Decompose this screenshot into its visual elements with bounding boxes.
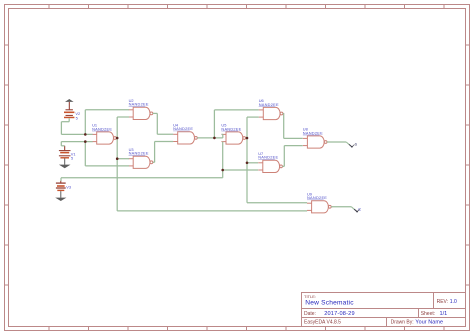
svg-text:C: C [358,208,361,212]
wire net U3out to U4 in2 [153,142,174,163]
wire net B: to U3 in2 [85,165,129,167]
nand gate U2 [129,107,155,119]
junction net Cin at U7 branch [221,169,224,172]
junction net B at U1 in2 [84,140,87,143]
wire net A: V2 bottom jog [61,118,69,134]
svg-text:Drawn By:: Drawn By: [391,320,414,326]
svg-text:5: 5 [76,116,78,121]
nand gate U6 [259,107,285,119]
value label V1 = 5V [71,151,76,160]
power flag above V2 (rotated ground, arrow up) [65,99,74,109]
wire net S1: jog up to U5 in1 [222,134,223,138]
nand gate U9 [307,201,333,213]
svg-text:5: 5 [71,156,73,161]
svg-text:NAND2EE: NAND2EE [129,151,149,156]
nand gate U4 [173,132,199,144]
junction U5out at U7 in1 [246,162,249,165]
svg-text:NAND2EE: NAND2EE [259,102,279,107]
wire net A: to U1 in1 [61,133,92,135]
wire net U1out: vertical trunk [116,117,118,211]
wire net B: to U1 in2 [61,141,92,143]
designator label U9 NAND2EE [307,191,327,200]
wire net U1out: to U2 in2 [117,116,129,118]
wire net B: drop to U3 row [84,142,86,166]
svg-text:New Schematic: New Schematic [305,300,354,307]
svg-text:1.0: 1.0 [450,299,457,305]
designator label U8 NAND2EE [303,127,323,136]
junction U1 output [116,137,119,140]
svg-text:Sheet:: Sheet: [421,311,435,317]
svg-text:NAND2EE: NAND2EE [173,126,193,131]
pin stub V3 positive [60,181,62,183]
battery V3 [56,183,66,192]
junction net A at U1 in1 [84,133,87,136]
svg-text:NAND2EE: NAND2EE [129,102,149,107]
value label V2 = 5V [75,111,80,120]
value label V3 = 5V [66,184,71,189]
wire net U5out: vertical trunk [246,117,248,203]
svg-text:V3: V3 [66,184,71,189]
svg-text:EasyEDA V4.8.5: EasyEDA V4.8.5 [304,320,341,326]
svg-text:NAND2EE: NAND2EE [307,195,327,200]
wire net U5out: to U6 in2 [247,116,259,118]
wire net U7out to U8 in2 [282,146,302,167]
net port C [351,207,361,213]
wire net Cin: to U7 in2 [223,169,258,171]
designator label U6 NAND2EE [259,98,279,107]
wire net U5out: bottom run to U9 in1 [247,202,307,204]
net port S [346,142,357,148]
svg-text:NAND2EE: NAND2EE [303,130,323,135]
svg-text:Date:: Date: [304,311,316,317]
wire net S1: to U6 in1 [214,109,258,111]
svg-text:Your Name: Your Name [415,320,443,326]
junction S1 at U4 output [213,137,216,140]
designator label U2 NAND2EE [129,98,149,107]
junction U5 output [246,137,249,140]
nand gate U1 [92,132,118,144]
svg-text:REV:: REV: [437,299,448,305]
wire net A: to U2 in1 [85,109,129,111]
ground below V1 [59,159,71,169]
wire net S: U8 out [327,141,346,143]
svg-text:NAND2EE: NAND2EE [92,126,112,131]
svg-text:2017-08-29: 2017-08-29 [324,311,355,317]
wire net U2out to U4 in1 [153,113,174,134]
wire net U1out: to U3 in1 [117,158,129,160]
svg-text:S: S [355,142,358,146]
svg-text:NAND2EE: NAND2EE [258,155,278,160]
wire net U1out: output stub [116,137,117,139]
designator label U1 NAND2EE [92,123,112,132]
nand gate U7 [258,160,284,172]
wire net S1: riser to U6 [213,110,215,138]
junction U1out at U3 in1 [116,157,119,160]
designator label U3 NAND2EE [129,147,149,156]
designator label U7 NAND2EE [258,151,278,160]
wire net Cin: long run right [61,177,223,179]
svg-text:NAND2EE: NAND2EE [221,126,241,131]
wire net U5out: to U7 in1 [247,162,258,164]
pin stub V1 positive [64,146,66,150]
nand gate U8 [303,136,329,148]
wire net B: V1 top [61,142,64,146]
nand gate U3 [129,156,155,168]
designator label U5 NAND2EE [221,123,241,132]
wire net A: riser to U2 [84,110,86,135]
wire net U1out: bottom run to U9 in2 [117,210,307,212]
wire net Cin: V3 top [60,178,62,181]
wire net U5out: output stub [246,137,248,139]
battery V1 [59,150,71,158]
svg-text:TITLE:: TITLE: [304,294,316,299]
wire net S1: U4 out run [197,137,223,139]
svg-text:1/1: 1/1 [440,311,448,317]
nand gate U5 [221,132,247,144]
ground below V3 [55,191,66,201]
wire net C: U9 out [331,206,351,208]
wire net U6out to U8 in1 [283,114,303,139]
battery V2 [64,109,74,118]
wire net Cin: riser to U5 in2 [222,142,224,178]
designator label U4 NAND2EE [173,123,193,132]
